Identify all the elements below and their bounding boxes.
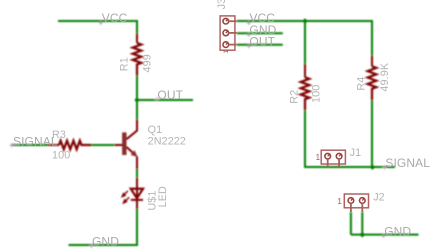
label SIGNAL right origin cross [382,165,386,169]
transistor Q1 base bar [122,132,126,155]
label OUT origin cross [155,97,159,101]
svg-text:OUT: OUT [157,88,183,102]
resistor R4 49.9K [368,56,377,101]
svg-text:1: 1 [337,197,342,206]
junction SIGNAL/R4 [370,165,375,170]
wire J2-2 to GND [361,212,363,235]
wire OUT stub [237,44,283,46]
svg-text:J2: J2 [373,192,385,204]
svg-text:100: 100 [52,149,70,161]
label GND bottom origin cross [381,234,385,238]
wire SIGNAL right [305,166,395,168]
svg-text:499: 499 [141,54,153,72]
wire VCC rail left [58,20,137,22]
pin J2-1 [348,198,354,212]
svg-text:LED: LED [157,186,169,207]
svg-text:R1: R1 [118,57,130,71]
pin J1-2 [336,153,342,167]
resistor R3 100 [48,141,92,150]
junction GND/J2 [360,232,365,237]
connector J3 body [220,16,235,50]
svg-text:R4: R4 [355,77,367,91]
wire emitter to LED [136,169,138,178]
svg-text:VCC: VCC [102,11,128,25]
svg-text:SIGNAL: SIGNAL [385,156,430,170]
label GND left origin cross [89,244,93,248]
svg-text:1: 1 [316,153,321,162]
wire GND right [351,234,419,236]
wire J2-1 to GND [350,212,352,235]
label VCC left origin cross [99,21,103,25]
svg-text:SIGNAL: SIGNAL [13,134,58,148]
label VCC right origin cross [247,21,251,25]
svg-text:1: 1 [223,50,230,54]
svg-text:R2: R2 [289,90,301,104]
wire SIGNAL left [12,144,48,146]
junction node OUT [134,97,139,102]
svg-text:J3: J3 [216,0,228,9]
svg-text:100: 100 [311,85,323,103]
wire VCC down to R4 [371,20,373,56]
svg-text:49.9K: 49.9K [379,62,391,91]
pin J2-2 [360,198,366,212]
pin J3-3 [223,42,237,48]
svg-text:OUT: OUT [249,34,275,48]
pin J3-2 [223,30,237,36]
diode LED U$1 [131,178,143,209]
junction VCC/R2 [302,18,307,23]
pin J3-1 [223,18,237,24]
label GND right origin cross [247,32,251,36]
transistor Q1 2N2222 collector/emitter [127,120,138,170]
resistor R2 100 [301,64,310,110]
wire VCC rail right [237,20,372,22]
resistor R1 499 [133,34,142,76]
LED emission arrow 2 [123,197,130,204]
wire VCC down to R2 [304,21,306,64]
svg-text:J1: J1 [350,147,362,159]
svg-text:GND: GND [384,224,411,238]
wire R1 to collector [136,76,138,120]
transistor Q1 emitter arrowhead [131,150,138,157]
pin J1-1 [325,153,331,167]
wire OUT [137,99,193,101]
connector J1 body [321,150,345,164]
svg-text:Q1: Q1 [148,124,163,136]
pin Q1 base [114,144,122,146]
wire LED to GND [69,209,138,245]
wire R2 to SIGNAL [305,110,373,167]
label SIGNAL left origin cross [10,143,14,147]
connector J2 body [344,194,368,208]
wire GND stub [237,32,283,34]
label OUT right origin cross [247,44,251,48]
wire VCC down to R1 [136,20,138,34]
svg-text:2N2222: 2N2222 [148,136,186,148]
LED emission arrow 1 [121,191,128,198]
wire base to R3 [92,144,115,146]
wire R4 to SIGNAL [371,100,373,167]
svg-text:GND: GND [92,234,119,248]
